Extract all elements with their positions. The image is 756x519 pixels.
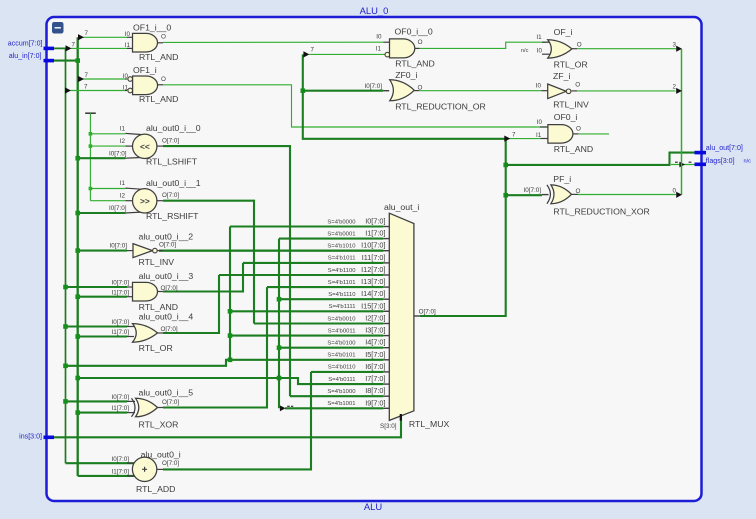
gate alu_out0_i RTL_ADD <box>111 449 180 494</box>
wire const to RSHIFT I1 <box>90 188 125 190</box>
wire accum bus riser <box>54 48 66 463</box>
svg-text:7: 7 <box>512 132 516 139</box>
svg-text:S=4'b0011: S=4'b0011 <box>328 328 356 334</box>
svg-text:alu_out0_i__5: alu_out0_i__5 <box>139 387 194 397</box>
svg-text:O: O <box>577 41 582 48</box>
svg-text:>>: >> <box>140 196 150 206</box>
wire mux input I12 row <box>219 274 383 276</box>
svg-text:I0: I0 <box>536 82 542 89</box>
svg-text:I0: I0 <box>537 47 543 54</box>
svg-text:I1: I1 <box>376 46 382 53</box>
svg-text:S=4'b0100: S=4'b0100 <box>327 341 356 347</box>
svg-text:I1: I1 <box>120 180 126 187</box>
port ins[3:0] <box>19 433 54 441</box>
wire OF0_i output dangling <box>579 133 609 135</box>
svg-text:I0[7:0]: I0[7:0] <box>109 243 127 250</box>
svg-text:I12[7:0]: I12[7:0] <box>361 265 385 274</box>
svg-text:OF0_i: OF0_i <box>554 112 578 122</box>
wire OF1_i__0 output to OF0_i__0 I0 <box>163 41 383 43</box>
svg-text:0: 0 <box>673 187 677 194</box>
svg-text:RTL_AND: RTL_AND <box>139 94 178 104</box>
svg-text:O: O <box>161 76 166 83</box>
svg-text:<<: << <box>140 142 150 152</box>
svg-text:S=4'b1111: S=4'b1111 <box>329 304 356 310</box>
gate OF0_i__0 RTL_AND <box>376 27 435 69</box>
svg-text:I0: I0 <box>123 73 129 80</box>
svg-text:RTL_AND: RTL_AND <box>139 52 178 62</box>
svg-text:S=4'b1000: S=4'b1000 <box>327 389 356 395</box>
rip alu_out0 bit7 to OF0_i__0 I1 <box>309 53 385 55</box>
svg-text:ALU: ALU <box>364 501 382 512</box>
svg-text:I0: I0 <box>537 119 543 126</box>
gate alu_out0_i__1 RTL_RSHIFT <box>109 178 201 221</box>
wire alu_in to RSHIFT I0 <box>78 212 126 214</box>
svg-text:I5[7:0]: I5[7:0] <box>365 350 385 359</box>
svg-text:alu_out_i: alu_out_i <box>384 202 419 212</box>
wire mux input I8 row <box>290 395 383 397</box>
svg-text:alu_in[7:0]: alu_in[7:0] <box>9 52 42 60</box>
wire mux input I9 row <box>285 407 383 409</box>
port flags[3:0] <box>695 157 735 166</box>
svg-text:RTL_REDUCTION_XOR: RTL_REDUCTION_XOR <box>553 207 649 217</box>
gate alu_out0_i__2 RTL_INV <box>109 232 193 268</box>
wire ins to mux S <box>54 416 401 438</box>
junction alu_out0 to ports row <box>503 163 508 168</box>
svg-text:I13[7:0]: I13[7:0] <box>361 277 385 286</box>
svg-text:7: 7 <box>85 72 89 79</box>
wire mux input I14 row <box>279 298 383 300</box>
wire mux input I6 row <box>311 371 383 373</box>
svg-text:I1: I1 <box>120 125 126 132</box>
gate OF0_i RTL_AND <box>536 112 593 154</box>
svg-text:I0[7:0]: I0[7:0] <box>111 319 129 326</box>
wire INV output to mux I10 <box>159 250 383 252</box>
svg-text:O[7:0]: O[7:0] <box>419 309 436 316</box>
svg-text:alu_out0_i__3: alu_out0_i__3 <box>139 271 194 281</box>
wire alu_in bus riser <box>54 60 78 62</box>
svg-text:S=4'b0001: S=4'b0001 <box>327 231 355 237</box>
wire alu_in to ADD I1 <box>78 475 135 477</box>
svg-text:I0: I0 <box>376 34 382 41</box>
svg-text:S=4'b1101: S=4'b1101 <box>328 280 356 286</box>
wire mux input I13 row <box>267 286 383 288</box>
svg-text:alu_out0_i__0: alu_out0_i__0 <box>146 123 201 133</box>
gate PF_i RTL_REDUCTION_XOR <box>523 174 649 217</box>
wire ZF0_i output to ZF_i I0 <box>419 90 542 92</box>
svg-text:I6[7:0]: I6[7:0] <box>365 362 385 371</box>
wire mux output alu_out0 bus <box>303 54 506 316</box>
svg-text:I0: I0 <box>125 31 131 38</box>
svg-text:alu_out[7:0]: alu_out[7:0] <box>706 144 743 152</box>
wire flags bits bus <box>681 49 683 195</box>
svg-text:I2: I2 <box>120 192 126 199</box>
junction alu_out0 to PF row <box>503 193 508 198</box>
svg-text:I1: I1 <box>123 84 129 91</box>
wire const to LSHIFT I1 <box>90 133 125 135</box>
rip alu_in bit7 to OF1_i I0 <box>83 78 125 80</box>
wire PF_i output flags bit0 <box>578 194 676 196</box>
wire alu_out to output port <box>506 153 695 165</box>
svg-text:S=4'b0111: S=4'b0111 <box>328 377 355 383</box>
svg-text:7: 7 <box>85 30 89 37</box>
svg-text:n/c: n/c <box>744 159 752 165</box>
svg-text:O[7:0]: O[7:0] <box>162 399 179 406</box>
svg-text:I4[7:0]: I4[7:0] <box>365 338 385 347</box>
wire mux input I4 row <box>279 347 383 349</box>
svg-text:I7[7:0]: I7[7:0] <box>365 374 385 383</box>
svg-text:RTL_RSHIFT: RTL_RSHIFT <box>146 211 199 221</box>
wire accum net vertical to I0 I3 I15 <box>229 227 231 360</box>
gate ZF0_i RTL_REDUCTION_OR <box>364 70 485 112</box>
svg-text:S=4'b1001: S=4'b1001 <box>327 401 355 407</box>
wire ADD output to mux I6 <box>163 372 311 470</box>
svg-text:I3[7:0]: I3[7:0] <box>365 326 385 335</box>
svg-text:I14[7:0]: I14[7:0] <box>361 289 385 298</box>
svg-text:I0[7:0]: I0[7:0] <box>109 150 127 157</box>
svg-text:RTL_OR: RTL_OR <box>554 59 588 69</box>
svg-text:OF1_i: OF1_i <box>133 65 157 75</box>
svg-text:RTL_XOR: RTL_XOR <box>139 420 179 430</box>
svg-text:I0[7:0]: I0[7:0] <box>523 187 541 194</box>
wire alu_out0 to ZF0_i I0 <box>303 90 384 92</box>
svg-text:RTL_INV: RTL_INV <box>139 257 175 267</box>
svg-text:OF1_i__0: OF1_i__0 <box>133 23 171 33</box>
rip accum bit7 to OF1_i I1 <box>71 90 125 92</box>
svg-text:I1: I1 <box>536 132 542 139</box>
svg-text:RTL_OR: RTL_OR <box>139 343 173 353</box>
wire mux input I0 row <box>230 225 383 227</box>
svg-text:S=4'b1010: S=4'b1010 <box>327 244 356 250</box>
svg-text:I2[7:0]: I2[7:0] <box>365 314 385 323</box>
wire mux input I5 row <box>66 360 384 366</box>
svg-text:I11[7:0]: I11[7:0] <box>362 253 386 262</box>
mux alu_out_i RTL_MUX <box>380 202 449 430</box>
svg-text:7: 7 <box>84 83 88 90</box>
wire mux input I15 row <box>230 310 383 312</box>
svg-text:OF0_i__0: OF0_i__0 <box>395 27 433 37</box>
wire XOR output to mux I13 <box>163 287 267 407</box>
svg-text:O[7:0]: O[7:0] <box>162 460 179 467</box>
svg-text:S=4'b0000: S=4'b0000 <box>327 219 356 225</box>
constant tie-off <box>85 112 96 114</box>
svg-text:RTL_REDUCTION_OR: RTL_REDUCTION_OR <box>395 101 486 111</box>
gate alu_out0_i__0 RTL_LSHIFT <box>109 123 201 166</box>
svg-text:7: 7 <box>311 47 315 54</box>
svg-text:OF_i: OF_i <box>554 27 573 37</box>
gate OF1_i RTL_AND inverted inputs <box>123 65 179 104</box>
svg-text:O: O <box>576 125 581 132</box>
svg-text:RTL_AND: RTL_AND <box>395 59 434 69</box>
svg-text:RTL_ADD: RTL_ADD <box>136 484 175 494</box>
gate alu_out0_i__3 RTL_AND <box>111 271 193 312</box>
svg-text:I0[7:0]: I0[7:0] <box>364 83 382 90</box>
svg-text:I0[7:0]: I0[7:0] <box>111 456 129 463</box>
svg-text:flags[3:0]: flags[3:0] <box>706 157 735 165</box>
svg-text:2: 2 <box>673 84 677 91</box>
svg-text:O[7:0]: O[7:0] <box>162 137 179 144</box>
svg-text:O: O <box>576 188 581 195</box>
wire RSHIFT output to mux I2 <box>163 201 254 324</box>
gate alu_out0_i__4 RTL_OR <box>111 312 193 354</box>
svg-text:I9[7:0]: I9[7:0] <box>365 398 385 407</box>
svg-text:S=4'b0101: S=4'b0101 <box>327 353 355 359</box>
gate OF_i RTL_OR <box>521 27 588 69</box>
wire mux input I2 row <box>254 322 383 324</box>
svg-text:RTL_LSHIFT: RTL_LSHIFT <box>146 157 198 167</box>
svg-text:I1[7:0]: I1[7:0] <box>365 229 385 238</box>
svg-text:I1[7:0]: I1[7:0] <box>111 329 129 336</box>
wire alu_in to AND I1 <box>78 296 127 298</box>
gate OF1_i__0 RTL_AND <box>125 23 179 62</box>
svg-text:RTL_AND: RTL_AND <box>554 144 593 154</box>
svg-text:alu_out0_i__2: alu_out0_i__2 <box>139 232 194 242</box>
wire alu_in to LSHIFT I0 <box>78 157 126 159</box>
port alu_in[7:0] <box>9 52 54 62</box>
svg-text:O[7:0]: O[7:0] <box>161 326 178 333</box>
wire accum to XOR I0 <box>66 400 128 402</box>
wire mux input I7 row <box>78 378 384 384</box>
rip alu_in bit7 to OF1_i__0 I0 <box>83 36 127 38</box>
svg-text:O[7:0]: O[7:0] <box>159 242 176 249</box>
svg-text:I1: I1 <box>125 42 131 49</box>
svg-text:RTL_MUX: RTL_MUX <box>409 419 450 429</box>
rip accum bit7 to OF1_i__0 I1 <box>71 47 127 49</box>
svg-text:ZF0_i: ZF0_i <box>395 70 417 80</box>
svg-text:alu_out0_i: alu_out0_i <box>141 449 181 459</box>
gate alu_out0_i__5 RTL_XOR <box>111 387 193 429</box>
svg-text:S=4'b1100: S=4'b1100 <box>328 268 356 274</box>
wire OR output to mux I12 <box>163 275 219 333</box>
wire const to RSHIFT I2 <box>90 200 125 202</box>
port alu_out[7:0] <box>695 144 743 154</box>
svg-text:I1: I1 <box>536 34 542 41</box>
svg-text:S=4'b1011: S=4'b1011 <box>328 256 356 262</box>
wire mux input I3 row <box>230 335 383 337</box>
wire alu_in to OR I1 <box>78 335 127 337</box>
gate ZF_i RTL_INV <box>536 71 589 110</box>
wire accum to OR I0 <box>66 325 128 327</box>
wire AND output to mux I11 <box>163 263 243 292</box>
wire mux input I10 row <box>159 250 383 252</box>
svg-text:accum[7:0]: accum[7:0] <box>8 40 43 48</box>
wire alu_in net vertical to I1 I4 I14 I9 <box>278 239 280 409</box>
wire ZF_i output flags bit2 <box>577 90 676 92</box>
svg-text:I0[7:0]: I0[7:0] <box>111 394 129 401</box>
svg-text:S=4'b0010: S=4'b0010 <box>327 316 356 322</box>
port accum[7:0] <box>8 40 54 51</box>
svg-text:I0[7:0]: I0[7:0] <box>109 205 127 212</box>
svg-text:I0[7:0]: I0[7:0] <box>111 280 129 287</box>
svg-text:I1[7:0]: I1[7:0] <box>111 289 129 296</box>
wire OF_i output flags bit3 <box>577 48 676 50</box>
svg-text:I1[7:0]: I1[7:0] <box>111 405 129 412</box>
svg-text:3: 3 <box>673 42 677 49</box>
svg-text:7: 7 <box>72 41 76 48</box>
svg-text:S=4'b1110: S=4'b1110 <box>328 292 356 298</box>
svg-text:n/c: n/c <box>521 48 529 54</box>
wire accum to ADD I0 <box>66 462 136 464</box>
wire mux input I11 row <box>243 262 383 264</box>
svg-text:O: O <box>418 39 423 46</box>
wire LSHIFT output to mux I8 <box>163 146 290 396</box>
wire const to LSHIFT I2 <box>90 145 125 147</box>
svg-text:O[7:0]: O[7:0] <box>162 192 179 199</box>
wire OF1_i output to OF0_i I0 <box>163 85 548 127</box>
svg-text:alu_out0_i__4: alu_out0_i__4 <box>139 312 194 322</box>
svg-text:PF_i: PF_i <box>553 174 571 184</box>
collapse button <box>52 22 64 34</box>
svg-text:alu_out0_i__1: alu_out0_i__1 <box>146 178 201 188</box>
wire OF0_i__0 output to OF_i I1 <box>420 42 548 48</box>
svg-text:I1[7:0]: I1[7:0] <box>111 469 129 476</box>
wire accum to AND I0 <box>66 286 128 288</box>
junction alu_out0 to ZF0 row <box>301 88 306 93</box>
wire alu_out0 to PF_i I0 <box>506 194 542 196</box>
svg-text:ZF_i: ZF_i <box>553 71 570 81</box>
svg-text:S=4'b0110: S=4'b0110 <box>328 365 356 371</box>
wire alu_in to XOR I1 <box>78 412 127 414</box>
wire alu_in to INV I0 <box>78 250 127 252</box>
svg-text:O[7:0]: O[7:0] <box>161 285 178 292</box>
svg-text:S[3:0]: S[3:0] <box>380 423 397 430</box>
svg-text:RTL_AND: RTL_AND <box>139 302 178 312</box>
svg-text:I10[7:0]: I10[7:0] <box>361 241 385 250</box>
wire flags to port with partial marks <box>671 164 695 166</box>
svg-text:O: O <box>161 33 166 40</box>
svg-text:I2: I2 <box>120 138 126 145</box>
svg-text:ins[3:0]: ins[3:0] <box>19 433 42 441</box>
svg-text:I8[7:0]: I8[7:0] <box>365 386 385 395</box>
svg-text:RTL_INV: RTL_INV <box>553 99 589 109</box>
svg-text:O: O <box>575 82 580 89</box>
wire mux input I1 row <box>279 238 383 240</box>
svg-text:ALU_0: ALU_0 <box>360 5 389 16</box>
svg-text:I15[7:0]: I15[7:0] <box>361 301 385 310</box>
svg-text:I0[7:0]: I0[7:0] <box>365 217 385 226</box>
rip alu_out0 bit7 to OF0_i I1 <box>510 138 541 140</box>
